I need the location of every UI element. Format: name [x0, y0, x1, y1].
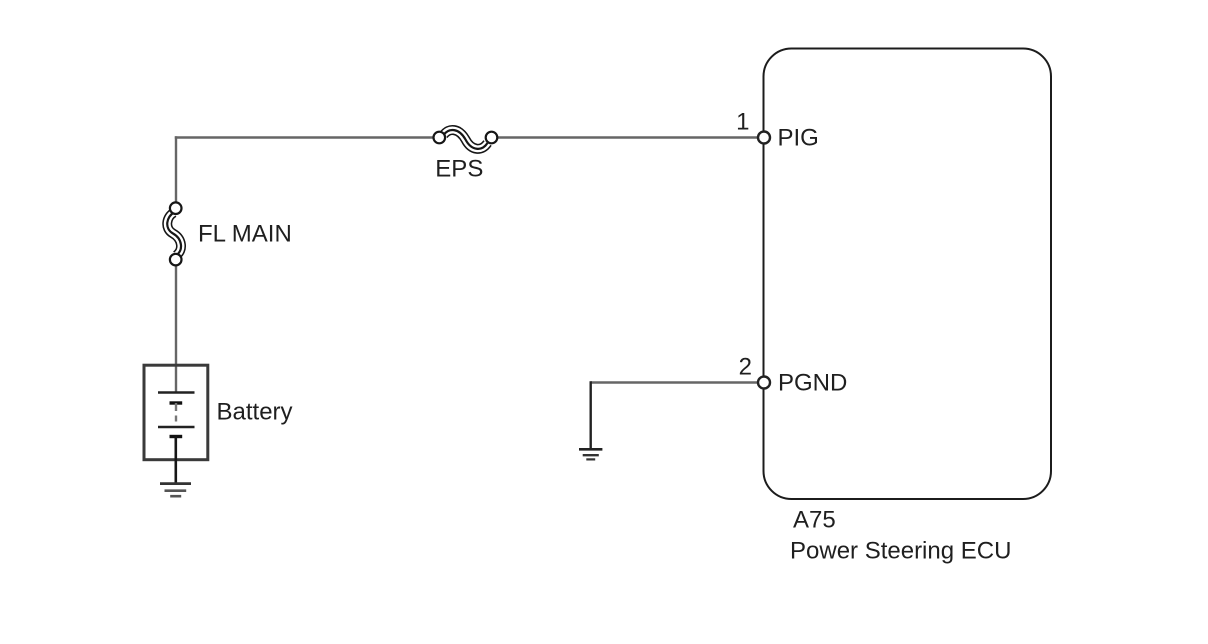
svg-text:1: 1 — [736, 109, 749, 136]
wire: vertical from corner down to FL MAIN — [175, 136, 177, 203]
svg-text:Power Steering ECU: Power Steering ECU — [790, 538, 1011, 565]
wire: FL MAIN to battery — [175, 265, 177, 393]
battery cell dash — [175, 416, 177, 422]
battery box — [144, 365, 208, 460]
svg-text:PIG: PIG — [778, 125, 819, 152]
wire: EPS fuse to pin 1 PIG — [496, 136, 760, 138]
ECU box A75 — [764, 49, 1052, 500]
svg-text:EPS: EPS — [435, 156, 483, 183]
battery plate short top — [170, 401, 183, 404]
ground below battery — [160, 484, 191, 497]
fuse FL MAIN (ribbon vertical) — [167, 202, 181, 265]
pin 2 — [758, 377, 770, 389]
svg-text:A75: A75 — [793, 507, 836, 534]
wire: top horizontal from corner to EPS fuse — [175, 136, 434, 138]
battery plate short bottom — [170, 435, 183, 438]
battery plate long top — [158, 391, 195, 393]
ground at PGND — [579, 449, 602, 459]
svg-text:FL MAIN: FL MAIN — [198, 221, 292, 248]
wire: PGND vertical drop — [590, 381, 592, 449]
svg-text:PGND: PGND — [778, 370, 847, 397]
pin 1 — [758, 132, 770, 144]
battery plate long bottom — [158, 426, 195, 428]
fuse EPS (ribbon) — [434, 130, 498, 149]
svg-text:Battery: Battery — [217, 399, 293, 426]
svg-text:2: 2 — [739, 354, 752, 381]
battery cell stub — [175, 403, 177, 411]
wire: PGND horizontal — [591, 381, 760, 383]
wire: battery to ground — [175, 437, 178, 484]
